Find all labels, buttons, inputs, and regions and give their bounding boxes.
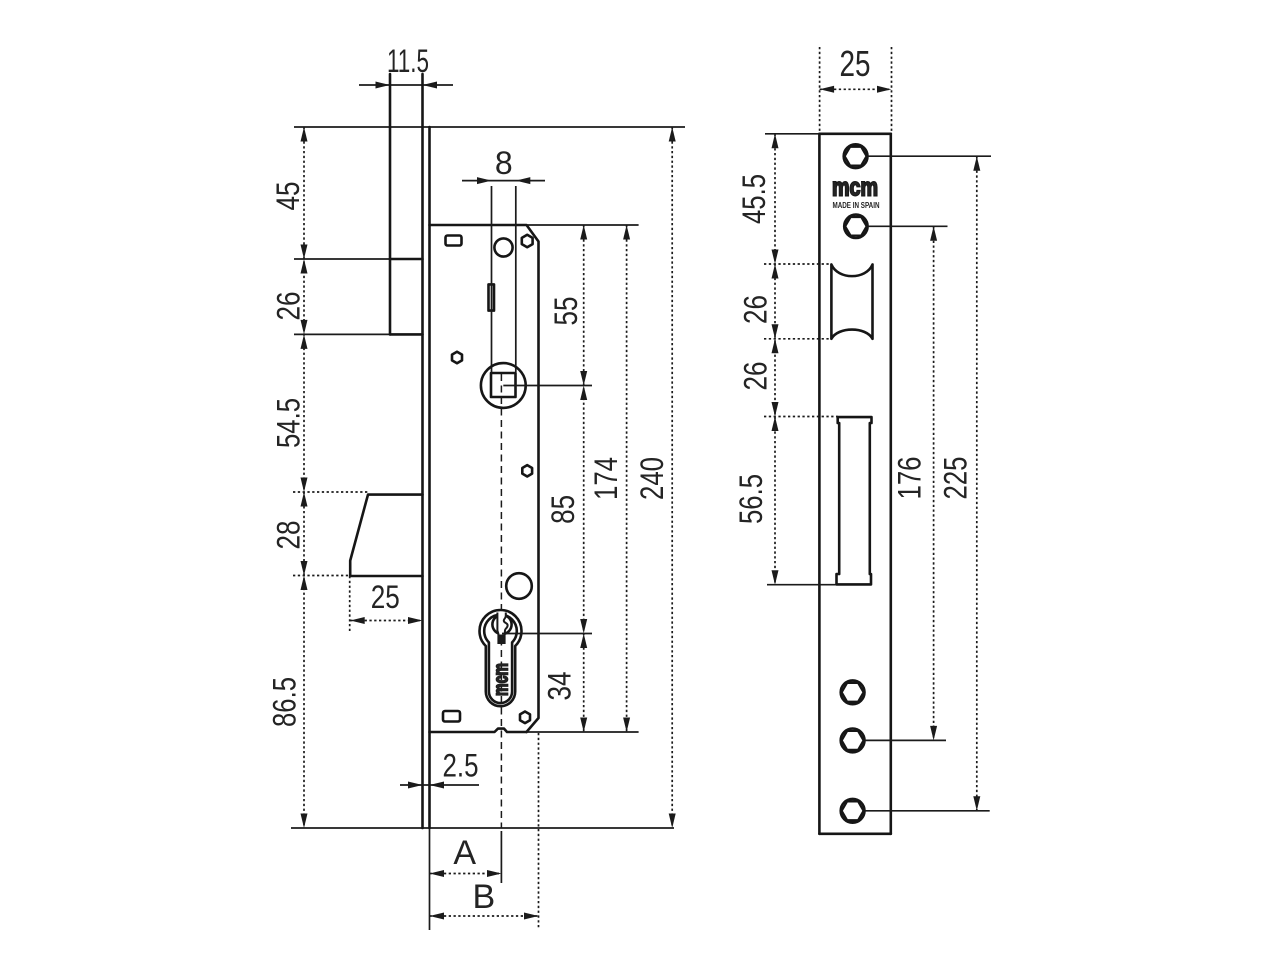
screw 1 [844, 144, 868, 168]
follower center leader [503, 385, 592, 387]
screw 4 [841, 729, 865, 753]
deadbolt cutout [837, 417, 872, 584]
svg-text:240: 240 [634, 457, 670, 500]
cylinder center leader [502, 633, 592, 635]
euro cylinder outer profile [480, 610, 522, 706]
strip right edge [889, 134, 892, 834]
dimension A extension left [429, 829, 431, 930]
svg-text:176: 176 [892, 457, 928, 500]
svg-text:56.5: 56.5 [733, 474, 769, 524]
svg-text:11.5: 11.5 [387, 43, 429, 79]
slot [489, 284, 495, 310]
right tick y=264 [764, 263, 831, 265]
right tick y=584.7 [767, 584, 837, 586]
dimension 2.5 line [400, 784, 479, 786]
case bottom reference extension [527, 731, 639, 733]
faceplate back edge [428, 127, 431, 828]
strip bottom edge [819, 832, 890, 835]
hole circle mid [506, 573, 532, 599]
svg-text:86.5: 86.5 [267, 677, 303, 727]
hole circle top [494, 238, 512, 256]
screw post rectangle top [446, 236, 462, 246]
tick line at y=334.4 [294, 333, 390, 335]
svg-text:25: 25 [840, 43, 871, 84]
screw 5 leader [865, 810, 990, 812]
dimension 8 extensions [491, 186, 493, 372]
svg-text:mcm: mcm [832, 174, 878, 202]
screw 4 leader [865, 739, 947, 741]
deadbolt guard [350, 495, 422, 576]
euro cylinder inner profile [484, 615, 517, 703]
dimension A line [430, 873, 502, 875]
hexagon boss bottom [520, 712, 530, 724]
svg-text:MADE IN SPAIN: MADE IN SPAIN [833, 201, 880, 210]
bottom reference line [291, 827, 674, 829]
svg-text:26: 26 [738, 362, 774, 391]
dimension 8 line [462, 180, 545, 182]
dimension 25 extensions [819, 47, 821, 132]
latch bolt bottom [390, 333, 423, 336]
right tick y=338.8 [764, 338, 831, 340]
svg-text:54.5: 54.5 [271, 398, 307, 448]
tick line at y=492 [293, 491, 368, 493]
key tip filled [499, 635, 504, 643]
latch bolt front line [389, 74, 392, 334]
hexagon boss top-right [522, 235, 533, 247]
latch bolt top [390, 258, 423, 261]
strip top reference extension [765, 133, 819, 135]
chain arrowheads [301, 127, 308, 828]
svg-text:34: 34 [542, 672, 578, 701]
right chain line [774, 134, 776, 585]
svg-text:174: 174 [588, 457, 624, 500]
screw 5 [841, 799, 865, 823]
screw 2 [844, 215, 867, 238]
screw 2 leader [868, 225, 948, 227]
faceplate front edge [421, 74, 424, 828]
svg-text:8: 8 [495, 145, 513, 181]
right tick y=416.5 [764, 416, 838, 418]
dimension 11.5 line [359, 84, 453, 86]
dimension 25 (right) line [820, 88, 892, 90]
follower circle [481, 363, 526, 408]
svg-text:28: 28 [271, 521, 307, 550]
dimension 25 extension [349, 576, 351, 631]
cylinder plug circle [492, 615, 511, 634]
hexagon boss mid-left [452, 352, 462, 364]
svg-text:2.5: 2.5 [443, 748, 479, 784]
svg-text:mcm: mcm [490, 663, 512, 696]
keyway [497, 613, 507, 644]
screw 3 [841, 680, 865, 704]
dimension 55/85/34 line [583, 225, 585, 732]
tick line at y=259 [294, 258, 390, 260]
dimension 176 line [933, 226, 935, 740]
svg-text:B: B [473, 878, 496, 916]
svg-text:26: 26 [271, 292, 307, 321]
lock case outline [430, 225, 539, 732]
svg-text:55: 55 [548, 297, 584, 326]
dimension B line [430, 915, 539, 917]
svg-text:45: 45 [270, 182, 306, 211]
svg-text:A: A [453, 834, 476, 872]
svg-text:25: 25 [371, 579, 400, 615]
strip left edge [818, 134, 821, 834]
screw 1 leader [868, 155, 992, 157]
left dimension chain line [303, 127, 305, 828]
dimension 240 line [671, 127, 673, 828]
svg-text:45.5: 45.5 [736, 174, 772, 224]
case top reference extension [527, 224, 639, 226]
svg-text:85: 85 [545, 495, 581, 524]
case bottom edge with notch [430, 729, 527, 732]
dimension 225 line [976, 156, 978, 811]
svg-text:26: 26 [738, 295, 774, 324]
tick line at y=575.5 [293, 575, 350, 577]
svg-text:225: 225 [938, 457, 974, 500]
centerline [500, 374, 502, 828]
dimension B extension right [538, 733, 540, 929]
dimension 25 line [350, 620, 422, 622]
latch cutout [831, 265, 872, 339]
follower square [491, 373, 516, 397]
strip top edge [819, 133, 890, 136]
screw post rectangle bottom [443, 711, 460, 722]
dimension 174 line [626, 225, 628, 732]
hexagon boss below follower [522, 465, 532, 476]
top reference line [294, 126, 685, 128]
